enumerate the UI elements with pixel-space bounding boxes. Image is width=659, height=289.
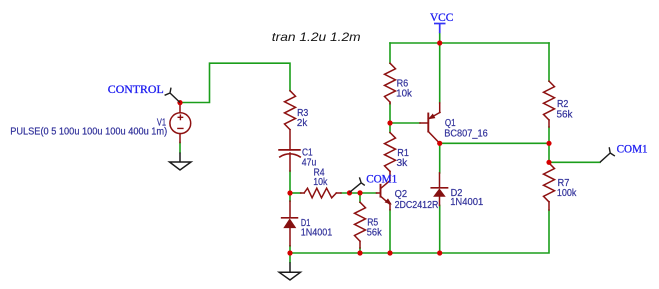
svg-text:PULSE(0 5 100u 100u 100u 400u: PULSE(0 5 100u 100u 100u 400u 1m) <box>10 127 167 138</box>
svg-text:2DC2412R: 2DC2412R <box>395 200 439 211</box>
svg-text:1N4001: 1N4001 <box>450 197 483 208</box>
svg-text:10k: 10k <box>313 177 327 188</box>
svg-text:3k: 3k <box>397 158 408 169</box>
svg-text:Q1: Q1 <box>445 118 456 129</box>
svg-text:VCC: VCC <box>430 12 454 24</box>
svg-text:10k: 10k <box>396 88 412 99</box>
svg-text:BC807_16: BC807_16 <box>444 129 487 140</box>
svg-text:CONTROL: CONTROL <box>108 84 164 96</box>
svg-text:100k: 100k <box>557 188 577 199</box>
svg-text:1N4001: 1N4001 <box>301 228 333 239</box>
svg-text:R2: R2 <box>557 99 568 110</box>
svg-text:56k: 56k <box>557 110 573 121</box>
svg-text:COM1: COM1 <box>366 173 397 185</box>
svg-text:COM1: COM1 <box>617 143 648 155</box>
svg-text:56k: 56k <box>367 228 382 239</box>
svg-text:Q2: Q2 <box>395 189 408 200</box>
svg-text:2k: 2k <box>297 118 307 129</box>
svg-text:tran 1.2u 1.2m: tran 1.2u 1.2m <box>272 30 361 44</box>
